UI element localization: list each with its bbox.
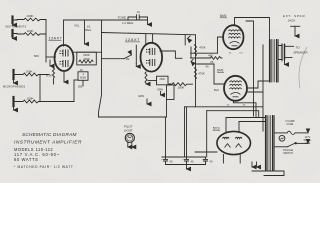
svg-text:100K: 100K [26,97,33,101]
svg-text:GRN: GRN [138,94,144,98]
svg-text:.01: .01 [136,10,140,14]
svg-text:50K: 50K [34,54,39,58]
svg-text:8.2K: 8.2K [46,74,52,78]
svg-text:SCHEMATIC DIAGRAM: SCHEMATIC DIAGRAM [22,132,77,137]
svg-text:LINE: LINE [305,142,311,145]
svg-text:5Y3: 5Y3 [213,126,220,130]
svg-text:2200: 2200 [160,78,166,81]
svg-text:BLU: BLU [214,88,219,92]
svg-text:1M: 1M [126,57,130,61]
svg-text:* MATCHED PAIR~ 1/2 WATT: * MATCHED PAIR~ 1/2 WATT [14,165,74,169]
svg-text:.05: .05 [210,60,214,64]
svg-text:100K: 100K [25,69,32,73]
svg-text:100K: 100K [26,29,33,33]
svg-text:6V6: 6V6 [220,14,226,18]
svg-text:12AX7: 12AX7 [125,37,140,42]
svg-text:180K: 180K [178,85,185,89]
svg-text:460: 460 [208,54,213,58]
svg-text:MICROPHONES: MICROPHONES [3,84,25,88]
svg-text:LIGHT: LIGHT [124,128,133,132]
svg-text:TONE: TONE [118,15,126,19]
svg-text:INSTRUMENTS: INSTRUMENTS [5,25,27,29]
svg-text:470K: 470K [199,46,206,50]
svg-text:MEG.: MEG. [85,28,92,32]
svg-text:80 WATTS: 80 WATTS [14,157,38,162]
svg-text:6V6: 6V6 [217,69,223,73]
svg-text:SPEAKER: SPEAKER [293,50,308,54]
svg-text:TO: TO [295,45,300,49]
svg-text:600S: 600S [80,76,86,80]
svg-text:VOL.: VOL. [74,24,80,28]
svg-text:SWITCH: SWITCH [283,152,293,155]
svg-text:FUSE: FUSE [287,123,294,126]
svg-text:470K: 470K [198,71,205,75]
svg-text:1.2 MEG.: 1.2 MEG. [122,21,134,25]
svg-text:INSTRUMENT AMPLIFIER: INSTRUMENT AMPLIFIER [14,140,82,146]
svg-text:JACK: JACK [288,18,296,22]
svg-text:005: 005 [78,85,83,89]
svg-text:12AX7: 12AX7 [49,36,63,41]
svg-text:.02: .02 [79,68,83,72]
svg-text:GRN: GRN [157,88,163,92]
svg-text:100K: 100K [26,14,33,18]
svg-text:220K: 220K [83,57,90,61]
